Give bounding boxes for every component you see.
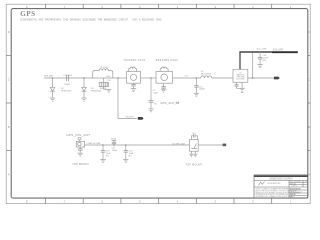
ground below D3	[81, 98, 86, 101]
node J1	[52, 77, 54, 79]
capacitor below FL2	[161, 87, 165, 88]
wire J6a drop	[125, 145, 127, 151]
J6 bottom pins	[190, 151, 192, 154]
wire U1 caps to ground	[237, 86, 243, 88]
svg-text:A: A	[8, 172, 10, 176]
LC tank loop wires	[93, 71, 100, 78]
antenna pad glyph	[78, 138, 81, 140]
node J4	[196, 77, 198, 79]
svg-text:TOP MOUNT: TOP MOUNT	[186, 163, 203, 166]
svg-text:C: C	[308, 77, 310, 81]
svg-text:1: 1	[290, 200, 292, 204]
svg-text:100pF: 100pF	[64, 84, 71, 86]
wire J7 drop	[150, 78, 152, 101]
wire C12 to ground	[195, 87, 197, 93]
net label GPS RF OUT (dark arrow)	[274, 77, 280, 80]
wire C9 to ground	[150, 102, 152, 109]
svg-text:B: B	[8, 125, 10, 129]
svg-text:100pF: 100pF	[199, 89, 206, 91]
wire bias to T bar	[113, 141, 115, 143]
svg-text:SIZE B: SIZE B	[290, 194, 296, 196]
svg-text:TA0969A TA16: TA0969A TA16	[123, 58, 145, 62]
ground below C18	[257, 65, 262, 68]
capacitor bias (above wire)	[112, 142, 116, 143]
wire cap to ground FL2	[163, 88, 165, 89]
bottom border zone ticks	[46, 198, 272, 204]
svg-text:6: 6	[101, 200, 103, 204]
net label GPS RF (dark)	[126, 117, 144, 120]
svg-text:NC: NC	[154, 103, 158, 105]
ground below U1	[239, 88, 244, 92]
svg-text:PESD0402: PESD0402	[61, 90, 72, 92]
wire J6 output	[198, 144, 224, 146]
node J5a	[102, 144, 104, 146]
ground below J5	[78, 153, 83, 156]
capacitor C12	[194, 86, 198, 87]
SAW resonator FL3 (hatched)	[99, 82, 108, 86]
bypass drop from rail	[259, 52, 261, 58]
title block right cells	[288, 180, 290, 198]
node J6a	[125, 144, 127, 146]
connector J6 box	[190, 140, 199, 152]
svg-text:8: 8	[26, 200, 28, 204]
wire J2 drop	[83, 78, 85, 87]
ground below C19	[100, 159, 105, 162]
svg-text:50 OHM COAX: 50 OHM COAX	[172, 142, 186, 145]
right border zone letters	[308, 30, 310, 177]
wire J1 drop	[52, 78, 54, 87]
svg-text:GPS: GPS	[20, 10, 35, 18]
capacitor below U1 left pin	[235, 85, 239, 86]
filter FL1 box	[127, 72, 141, 84]
left border zone letters	[8, 30, 10, 177]
svg-text:B: B	[305, 181, 307, 183]
filter FL2 box	[156, 72, 173, 84]
svg-text:DATE 10-21-14: DATE 10-21-14	[290, 190, 302, 193]
title lower right rows	[289, 189, 308, 191]
ground below FL2	[161, 89, 166, 92]
svg-text:1575 MHZ: 1575 MHZ	[236, 79, 245, 81]
svg-text:16V: 16V	[262, 60, 266, 62]
module U1 box	[233, 69, 248, 82]
wire shunt stub tank	[103, 78, 105, 82]
svg-text:D: D	[8, 30, 10, 34]
ground below J6 left pin	[189, 154, 193, 157]
FL2 bottom pin wire	[163, 83, 165, 86]
wire bias riser	[113, 144, 115, 145]
U1 bottom pin wires	[236, 82, 238, 85]
wire FL1 to FL2	[141, 77, 157, 79]
power rail thick segment	[272, 51, 298, 53]
title block company row line	[254, 179, 308, 181]
inductor above FL2	[160, 67, 168, 72]
svg-text:2: 2	[252, 200, 254, 204]
bottom border zone digits	[26, 200, 292, 204]
svg-text:GPS_RF1: GPS_RF1	[126, 117, 134, 119]
svg-text:1 OF 1: 1 OF 1	[292, 186, 297, 188]
ground below D1	[50, 98, 55, 101]
capacitor C18	[258, 58, 262, 59]
svg-text:C2 100pF: C2 100pF	[63, 75, 73, 77]
ground below C12	[194, 93, 199, 96]
wire FL2 to L3	[173, 77, 201, 79]
svg-text:CONFIDENTIAL AND PROPRIETARY T: CONFIDENTIAL AND PROPRIETARY THIS DRAWIN…	[20, 18, 162, 21]
inner border frame line	[11, 9, 308, 199]
svg-text:C11: C11	[185, 76, 188, 78]
connector J5 box	[76, 141, 84, 147]
svg-text:7: 7	[64, 200, 66, 204]
svg-text:VCC_GPS: VCC_GPS	[257, 49, 268, 51]
capacitor below J5	[78, 149, 83, 150]
wire J3 down and right	[118, 78, 137, 118]
svg-text:B3913B9 F9A2: B3913B9 F9A2	[156, 58, 179, 62]
wire bottom RF line	[85, 144, 190, 146]
wire C19 to ground	[102, 152, 104, 159]
title block outline	[254, 175, 308, 198]
wire U1 output	[248, 77, 274, 79]
capacitor below FL1	[131, 85, 135, 86]
svg-text:0402: 0402	[106, 76, 110, 78]
J5 inner circle	[78, 142, 81, 145]
inductor L3 (series)	[201, 76, 212, 78]
svg-text:5: 5	[139, 200, 141, 204]
wire J5 down	[79, 147, 81, 149]
top border zone digits	[26, 5, 292, 9]
inductor above FL1	[129, 67, 137, 72]
node J3	[117, 77, 119, 79]
inductor L2 (top of tank)	[99, 69, 108, 71]
svg-text:COAX 50 OHM: COAX 50 OHM	[87, 142, 101, 145]
J6 inner switch glyph	[191, 143, 197, 148]
svg-text:3V3_ANT: 3V3_ANT	[273, 48, 284, 51]
wire through tank	[93, 77, 113, 79]
svg-text:GPS ANT RF: GPS ANT RF	[268, 182, 282, 185]
svg-text:SCALE NONE: SCALE NONE	[290, 187, 302, 190]
svg-text:50R: 50R	[107, 80, 111, 82]
logo squiggle	[259, 182, 265, 186]
power rail (medium)	[239, 51, 272, 53]
title row divider	[254, 186, 308, 188]
svg-text:TOP MOUNT: TOP MOUNT	[72, 163, 89, 166]
capacitor C20	[124, 151, 128, 153]
svg-text:4: 4	[177, 200, 179, 204]
wire riser to rail	[252, 52, 254, 78]
svg-text:PESD0402: PESD0402	[91, 90, 102, 92]
FL1 inner circle	[130, 74, 136, 80]
svg-text:1.5pF: 1.5pF	[153, 92, 159, 94]
outer border frame line	[6, 4, 310, 203]
wire J4 drop	[195, 78, 197, 86]
svg-text:100pF: 100pF	[112, 150, 119, 152]
wire C20 to ground	[125, 152, 127, 159]
svg-text:L2 27nH: L2 27nH	[100, 67, 108, 69]
svg-text:C: C	[8, 77, 10, 81]
ground below FL1	[131, 89, 136, 92]
svg-text:D: D	[308, 30, 310, 34]
title block top dark bar	[254, 175, 308, 177]
svg-text:NC: NC	[129, 156, 133, 158]
svg-text:3V3A: 3V3A	[111, 138, 117, 141]
node riser	[252, 77, 254, 79]
wire main RF line left	[44, 77, 93, 79]
wire C18 to ground	[259, 59, 261, 65]
capacitor C19	[101, 151, 105, 153]
svg-text:C22: C22	[192, 133, 197, 135]
FL1 bottom pin wire	[133, 83, 135, 84]
node riser bias	[113, 144, 115, 146]
net stub to J5 connector	[79, 140, 81, 142]
svg-text:MLG1005S: MLG1005S	[201, 73, 212, 75]
T-bar rail stub	[112, 140, 117, 142]
svg-text:A: A	[308, 172, 310, 176]
node J2	[83, 77, 85, 79]
left border zone ticks	[6, 55, 11, 150]
wire L3 to U1	[212, 77, 233, 79]
FL2 inner circle	[161, 74, 168, 81]
top border zone ticks	[46, 4, 272, 9]
capacitor bypass J6	[194, 134, 195, 137]
right border zone ticks	[308, 55, 310, 150]
power stem to U1 (thick)	[239, 52, 241, 69]
svg-text:SHT 1: SHT 1	[290, 197, 295, 199]
capacitor C9	[149, 101, 154, 103]
wire J5a drop	[102, 145, 104, 151]
ground below FL3	[106, 89, 111, 92]
svg-text:GPS_INS_ANT: GPS_INS_ANT	[66, 133, 90, 137]
J6 top bypass loop	[191, 136, 193, 140]
svg-text:NC: NC	[106, 156, 110, 158]
wire tank to FL1	[113, 77, 127, 79]
svg-text:1M: 1M	[175, 101, 179, 105]
svg-text:3: 3	[214, 200, 216, 204]
wire cap to ground J5	[79, 150, 81, 153]
diode D1	[50, 87, 55, 98]
ground below C20	[123, 159, 128, 162]
node J7	[150, 77, 152, 79]
end stub net label	[223, 144, 227, 147]
capacitor C2 (series, in line)	[67, 75, 69, 81]
svg-text:B: B	[308, 125, 310, 129]
ground below J6 right pin	[193, 154, 197, 157]
wire FL3 to ground	[104, 87, 109, 90]
diode D3	[82, 87, 87, 98]
ground below C9	[148, 109, 153, 112]
wire cap to ground FL1	[133, 86, 135, 89]
svg-text:GPS_ANT: GPS_ANT	[44, 75, 54, 78]
